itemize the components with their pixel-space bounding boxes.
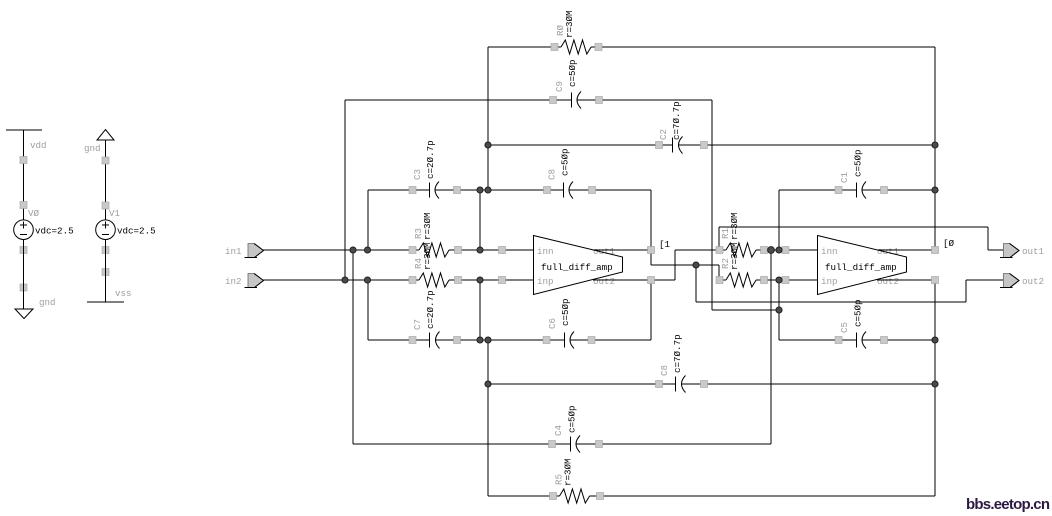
wire net C8 bottom row (y=384) <box>488 340 935 496</box>
resistor R5 <box>560 489 590 503</box>
svg-text:V1: V1 <box>109 208 121 219</box>
capacitor C8 (bottom) <box>676 376 686 393</box>
resistor R1 <box>726 243 756 257</box>
input pin in1 <box>245 244 264 258</box>
svg-text:out1: out1 <box>877 246 900 257</box>
svg-text:C7: C7 <box>412 319 423 330</box>
wire U2 out2 <box>877 279 935 281</box>
svg-text:inp: inp <box>821 276 838 287</box>
svg-text:out2: out2 <box>1022 276 1044 287</box>
junction dot C7 row x480 <box>477 337 483 343</box>
R4 terminal squares <box>409 277 462 284</box>
resistor R4 <box>419 273 449 287</box>
svg-text:out2: out2 <box>593 276 615 287</box>
C2 terminal squares <box>656 142 708 149</box>
svg-text:gnd: gnd <box>39 297 56 308</box>
wire net C3/C8 row (y=190 left) <box>368 190 651 265</box>
wire net C2 row <box>488 144 935 146</box>
resistor R0 <box>561 40 591 54</box>
wire net C5 row <box>779 339 935 341</box>
C7 terminal squares <box>409 337 461 344</box>
capacitor C3 <box>430 182 440 199</box>
svg-text:c=2Ø.7p: c=2Ø.7p <box>425 290 436 329</box>
svg-text:C6: C6 <box>547 318 558 329</box>
junction dot C3 row x480 <box>477 187 483 193</box>
svg-text:c=5Øp: c=5Øp <box>853 299 864 327</box>
svg-text:c=5Øp: c=5Øp <box>567 59 578 87</box>
wire V0 to gnd <box>23 240 25 310</box>
wire net C4 row (y=441) <box>353 443 771 445</box>
amp2 input pin squares <box>782 247 789 284</box>
voltage source V0 <box>14 220 34 240</box>
C9 terminal squares <box>550 97 603 104</box>
wire out1 jog to R2 <box>651 250 726 280</box>
wire vdd to V0 <box>23 130 25 220</box>
wire C4 feedback to inn2 <box>770 250 772 444</box>
output pin out2 <box>1000 274 1019 288</box>
junction dot inn2 x779 <box>776 247 782 253</box>
junction dot in1/C3 branch <box>364 247 370 253</box>
output pin out1 <box>1000 244 1019 258</box>
svg-text:r=3ØM: r=3ØM <box>422 242 433 270</box>
resistor R2 <box>726 273 756 287</box>
wire out2-pin feed (y=302) <box>696 265 1003 302</box>
svg-text:out2: out2 <box>877 276 899 287</box>
svg-text:C9: C9 <box>554 81 565 92</box>
C8 top terminal squares <box>544 187 596 194</box>
wire V1 to vss <box>105 240 107 303</box>
junction dot inp2 x779 <box>776 277 782 283</box>
wire out2 cross to R1 <box>651 250 726 280</box>
wire R1 to U2 inn <box>756 249 817 251</box>
svg-text:C1: C1 <box>839 171 850 183</box>
vss rail symbol <box>87 301 124 303</box>
junction dot inp1 x480 <box>477 277 483 283</box>
svg-text:c=5Øp: c=5Øp <box>560 148 571 176</box>
svg-text:gnd: gnd <box>84 143 101 154</box>
svg-text:in2: in2 <box>225 276 242 287</box>
svg-text:out1: out1 <box>1022 246 1045 257</box>
junction dot C3 row x488 <box>485 187 491 193</box>
svg-text:VØ: VØ <box>28 208 40 219</box>
svg-text:r=3ØM: r=3ØM <box>729 242 740 270</box>
wire net in2 row <box>263 280 533 340</box>
amp1 output node squares <box>648 247 655 284</box>
junction dot in2/C7 branch <box>364 277 370 283</box>
R3 terminal squares <box>409 247 462 254</box>
wire C9 to inp2 (y=310) <box>712 280 779 340</box>
resistor R3 <box>419 243 449 257</box>
junction dot y310 x779 <box>776 307 782 313</box>
svg-text:vss: vss <box>115 288 132 299</box>
svg-text:full_diff_amp: full_diff_amp <box>541 262 613 273</box>
svg-text:r=3ØM: r=3ØM <box>422 212 433 240</box>
junction dot C8 bottom right <box>932 381 938 387</box>
C4 terminal squares <box>549 441 603 448</box>
junction dot C8 bottom left <box>485 381 491 387</box>
svg-text:C2: C2 <box>658 129 669 140</box>
op-amp U1 full_diff_amp <box>534 236 623 295</box>
svg-text:c=5Øp: c=5Øp <box>567 405 578 433</box>
svg-text:full_diff_amp: full_diff_amp <box>825 262 897 273</box>
C1 terminal squares <box>835 187 888 194</box>
svg-text:in1: in1 <box>225 246 242 257</box>
capacitor C1 <box>857 182 867 199</box>
svg-text:inn: inn <box>821 246 838 257</box>
wire net R0 row (top feedback) <box>488 47 935 250</box>
input pin in2 <box>245 274 264 288</box>
capacitor C9 <box>572 92 582 109</box>
svg-text:vdd: vdd <box>30 140 47 151</box>
C6 terminal squares <box>543 337 595 344</box>
capacitor C8 (top) <box>564 182 574 199</box>
capacitor C5 <box>857 332 867 349</box>
C8 bottom terminal squares <box>656 381 708 388</box>
junction dot in1/C4 branch <box>350 247 356 253</box>
svg-text:vdc=2.5: vdc=2.5 <box>35 226 74 237</box>
svg-text:r=3ØM: r=3ØM <box>729 212 740 240</box>
ground symbol (V0) <box>15 309 33 319</box>
junction dot C7 row x488 <box>485 337 491 343</box>
junction dot C2 right <box>932 142 938 148</box>
wire net C6/C7 row (y=340 left) <box>368 339 651 341</box>
svg-text:inn: inn <box>537 246 554 257</box>
capacitor C7 <box>430 332 440 349</box>
svg-text:[1: [1 <box>659 239 671 250</box>
junction dot out2-pin tap <box>693 262 699 268</box>
svg-text:inp: inp <box>537 276 554 287</box>
svg-text:[Ø: [Ø <box>943 238 955 249</box>
C5 terminal squares <box>835 337 888 344</box>
R1 terminal squares <box>716 247 768 254</box>
vdd rail symbol <box>6 129 42 131</box>
svg-text:vdc=2.5: vdc=2.5 <box>117 226 156 237</box>
svg-text:C4: C4 <box>553 424 564 436</box>
wire U1 out2 to feedback <box>593 280 651 340</box>
svg-text:c=2Ø.7p: c=2Ø.7p <box>425 140 436 179</box>
R0 terminal squares <box>551 44 602 51</box>
wire U1 out1 to feedback <box>593 249 651 251</box>
junction dot in2/C9 branch <box>342 277 348 283</box>
junction dot C1 right <box>932 187 938 193</box>
V1 pin squares <box>102 157 109 276</box>
wire net C1 row <box>779 190 935 250</box>
svg-text:c=5Øp: c=5Øp <box>560 298 571 326</box>
V0 pin squares <box>20 157 27 292</box>
wire U2 out1 <box>877 249 935 251</box>
svg-text:c=7Ø.7p: c=7Ø.7p <box>672 334 683 373</box>
svg-text:c=5Øp: c=5Øp <box>853 149 864 177</box>
capacitor C2 <box>673 137 683 154</box>
R2 terminal squares <box>716 277 768 284</box>
junction dot C5 right <box>932 337 938 343</box>
wire R2 to U2 inp <box>756 279 817 281</box>
wire net R5 row (y=496) <box>488 495 935 497</box>
wire gnd to V1 <box>105 140 107 220</box>
svg-text:out1: out1 <box>593 246 616 257</box>
amp2 output node squares <box>932 247 939 284</box>
svg-text:C8: C8 <box>547 169 558 180</box>
svg-text:C8: C8 <box>659 365 670 376</box>
svg-text:r=3ØM: r=3ØM <box>563 458 574 486</box>
ground symbol (V1 top) <box>97 130 114 141</box>
junction dot inn2 x771 <box>768 247 775 254</box>
capacitor C4 <box>571 436 581 453</box>
R5 terminal squares <box>550 493 604 500</box>
wire right feedback column lower <box>934 280 936 496</box>
wire net C9 row <box>345 100 712 310</box>
C3 terminal squares <box>409 187 461 194</box>
svg-text:C5: C5 <box>839 322 850 333</box>
junction dot C2 left <box>485 142 491 148</box>
wire out1-pin feed (y=227) <box>719 227 1003 250</box>
op-amp U2 full_diff_amp <box>818 236 907 295</box>
amp1 input pin squares <box>499 247 506 284</box>
wire net in1 row <box>263 190 533 444</box>
capacitor C6 <box>565 332 575 349</box>
svg-text:C3: C3 <box>412 169 423 180</box>
svg-text:bbs.eetop.cn: bbs.eetop.cn <box>966 496 1050 513</box>
svg-text:c=7Ø.7p: c=7Ø.7p <box>671 101 682 140</box>
junction dot inn1 x480 <box>477 247 483 253</box>
voltage source V1 <box>96 220 116 240</box>
svg-text:r=3ØM: r=3ØM <box>564 10 575 38</box>
